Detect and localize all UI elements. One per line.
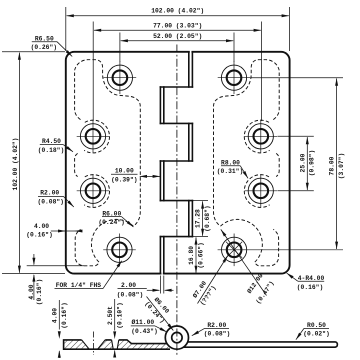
pocket arc around hole mid-left lower [84, 175, 109, 208]
extension lines 102 [65, 7, 67, 51]
svg-text:R2.00: R2.00 [207, 322, 226, 329]
arrow 16.80 up [195, 237, 198, 245]
leader dia12 [221, 229, 267, 295]
leader dia11 [155, 326, 167, 332]
arrow 52 left [120, 39, 128, 42]
arrow 2.00 right [153, 289, 161, 292]
svg-text:(3.07"): (3.07") [338, 153, 345, 179]
screw hole mid-left upper [77, 120, 110, 153]
leader R8.00 [240, 166, 248, 179]
side view barrel outer [165, 326, 188, 349]
pocket arc around hole mid-left upper [84, 120, 109, 153]
leader dia6 [147, 297, 174, 331]
left tooth row5 edges [188, 201, 190, 237]
dim line 102 [67, 15, 289, 17]
svg-text:52.00 (2.05"): 52.00 (2.05") [153, 33, 202, 40]
svg-text:(0.18"): (0.18") [38, 147, 64, 154]
arrow 78 down [335, 242, 338, 250]
extension+dim 52 [120, 33, 234, 63]
screw hole top-right [218, 61, 251, 94]
4.00 dim horizontal left [51, 230, 83, 232]
leader R6.00 [122, 217, 134, 227]
svg-text:R0.50: R0.50 [307, 322, 326, 329]
svg-text:10.00: 10.00 [115, 168, 134, 175]
svg-text:78.00: 78.00 [329, 156, 336, 175]
arrow 25 up [306, 137, 309, 145]
arrow 17.28 up [201, 201, 204, 209]
svg-text:4.00: 4.00 [34, 223, 49, 230]
svg-text:(0.98"): (0.98") [309, 150, 316, 176]
screw hole mid-left lower [77, 175, 110, 208]
arrow 77 left [94, 29, 102, 32]
side view dims [59, 299, 114, 358]
arrow 17.28 down [201, 229, 204, 237]
svg-text:2.50t: 2.50t [107, 306, 114, 325]
svg-text:16.80: 16.80 [188, 246, 195, 265]
right tooth row6 edges [159, 237, 161, 274]
underline R6.00 [102, 216, 122, 218]
right tooth row2 edges [159, 87, 161, 123]
svg-text:(0.16"): (0.16") [36, 279, 43, 305]
underline FOR 1/4 FHS [55, 288, 104, 290]
underline R2.00 [38, 195, 63, 197]
svg-text:17.28: 17.28 [194, 209, 201, 228]
side view left leaf outline [64, 340, 170, 349]
svg-text:R2.00: R2.00 [40, 190, 59, 197]
svg-text:(0.08"): (0.08") [117, 291, 143, 298]
arrow 4.00h left [75, 230, 83, 233]
arrow 77 right [254, 29, 262, 32]
left tooth row1 edges [188, 52, 190, 87]
arrow 2.50t up [113, 350, 116, 358]
underline R2.00 side [205, 327, 230, 329]
10.00 dim [111, 174, 160, 176]
knuckle interleaved teeth [160, 52, 192, 274]
arrow 4.00v down [32, 258, 35, 266]
underline R6.50 [32, 41, 57, 43]
2.50 side dim line [114, 299, 116, 331]
svg-text:(0.16"): (0.16") [61, 302, 68, 328]
pocket contour left (dashed) [75, 60, 141, 266]
leader FHS [103, 261, 122, 289]
arrow 25 down [306, 183, 309, 191]
svg-text:4.00: 4.00 [28, 284, 35, 299]
underline R4.50 [40, 144, 63, 146]
svg-text:102.00 (4.02"): 102.00 (4.02") [151, 8, 204, 15]
arrow 102v up [18, 52, 21, 60]
leader R2side [192, 328, 205, 335]
svg-text:(0.08"): (0.08") [204, 331, 230, 338]
underline 4-R4.00 [298, 280, 324, 282]
hinge leaf outline right [164, 52, 290, 274]
arrow 10.00 left [139, 175, 147, 178]
screw hole mid-right lower [244, 175, 277, 208]
svg-text:102.00 (4.02"): 102.00 (4.02") [12, 138, 19, 191]
pocket pinch left [75, 153, 78, 176]
underline dia 11.00 [131, 325, 155, 327]
svg-text:(0.08"): (0.08") [37, 199, 63, 206]
arrow 102v down [18, 266, 21, 274]
leader dia7 [198, 256, 228, 304]
arrow 4.00h right [58, 230, 66, 233]
svg-text:(0.24"): (0.24") [98, 219, 124, 226]
pocket contour right (dashed, mirrored) [213, 60, 279, 266]
arrow 78 up [335, 78, 338, 86]
svg-text:Ø11.00: Ø11.00 [131, 318, 154, 326]
hinge leaf outline left [66, 52, 290, 274]
centerline hole axis side view [92, 332, 94, 356]
side view right leaf [183, 342, 337, 347]
arrow 2.00 left [164, 289, 172, 292]
svg-text:25.00: 25.00 [299, 153, 306, 172]
screw hole bottom-left [103, 234, 136, 267]
arrow 102 right [282, 14, 290, 17]
leader R2.00 [63, 196, 73, 207]
side view pin hole [172, 332, 182, 342]
78.00 [251, 77, 344, 79]
side view hatched body [64, 340, 170, 349]
arrow 4.00side up [58, 350, 61, 358]
knuckle joint lines [160, 86, 192, 88]
arrow 102 left [66, 14, 74, 17]
svg-text:(0.10"): (0.10") [116, 302, 123, 328]
left tooth row3 edges [188, 123, 190, 161]
underline R8.00 [221, 165, 240, 167]
side view countersink notch 2 [112, 340, 119, 349]
svg-text:4.00: 4.00 [52, 308, 59, 323]
svg-text:2.00: 2.00 [121, 282, 136, 289]
4.00 side dim line [58, 300, 60, 330]
svg-text:(0.16"): (0.16") [26, 232, 52, 239]
screw hole mid-right upper [244, 120, 277, 153]
4.00 dim vertical bottom-left [27, 254, 84, 300]
leader R4.50 [63, 145, 73, 152]
screw hole top-left [104, 61, 137, 94]
2.00 dim [118, 276, 174, 294]
pin centerline [176, 45, 178, 357]
svg-text:(0.31"): (0.31") [217, 168, 243, 175]
svg-text:R4.50: R4.50 [42, 138, 61, 145]
arrow 4.00v up [32, 274, 35, 282]
arrow 2.50t down [113, 331, 116, 339]
arrow 16.80 down [195, 266, 198, 274]
arrow 10.00 right [153, 175, 161, 178]
svg-text:R8.00: R8.00 [221, 159, 240, 166]
underline R0.50 [304, 327, 329, 329]
svg-text:77.00 (3.03"): 77.00 (3.03") [153, 22, 202, 29]
svg-text:(0.39"): (0.39") [111, 177, 137, 184]
17.28 dim [193, 201, 208, 237]
16.80 dim [195, 237, 197, 272]
svg-text:(0.66"): (0.66") [197, 242, 204, 268]
svg-text:(0.43"): (0.43") [131, 328, 157, 335]
screw hole bottom-right with spokes [218, 234, 343, 267]
right tooth row4 edges [159, 161, 161, 201]
svg-text:(0.26"): (0.26") [31, 44, 57, 51]
leader 4-R4.00 [287, 273, 298, 281]
extension+dim 77 [93, 22, 261, 122]
svg-text:(0.16"): (0.16") [297, 284, 323, 291]
leader R6.50 [57, 42, 72, 57]
leader R0.50 [296, 328, 304, 339]
svg-text:FOR 1/4" FHS: FOR 1/4" FHS [56, 282, 102, 289]
arrow 52 right [226, 39, 234, 42]
svg-text:(0.68"): (0.68") [204, 205, 211, 231]
25.00 [278, 135, 314, 137]
svg-text:(0.02"): (0.02") [303, 331, 329, 338]
side view countersink notch 1 [82, 340, 106, 349]
arrow 4.00side down [58, 331, 61, 339]
